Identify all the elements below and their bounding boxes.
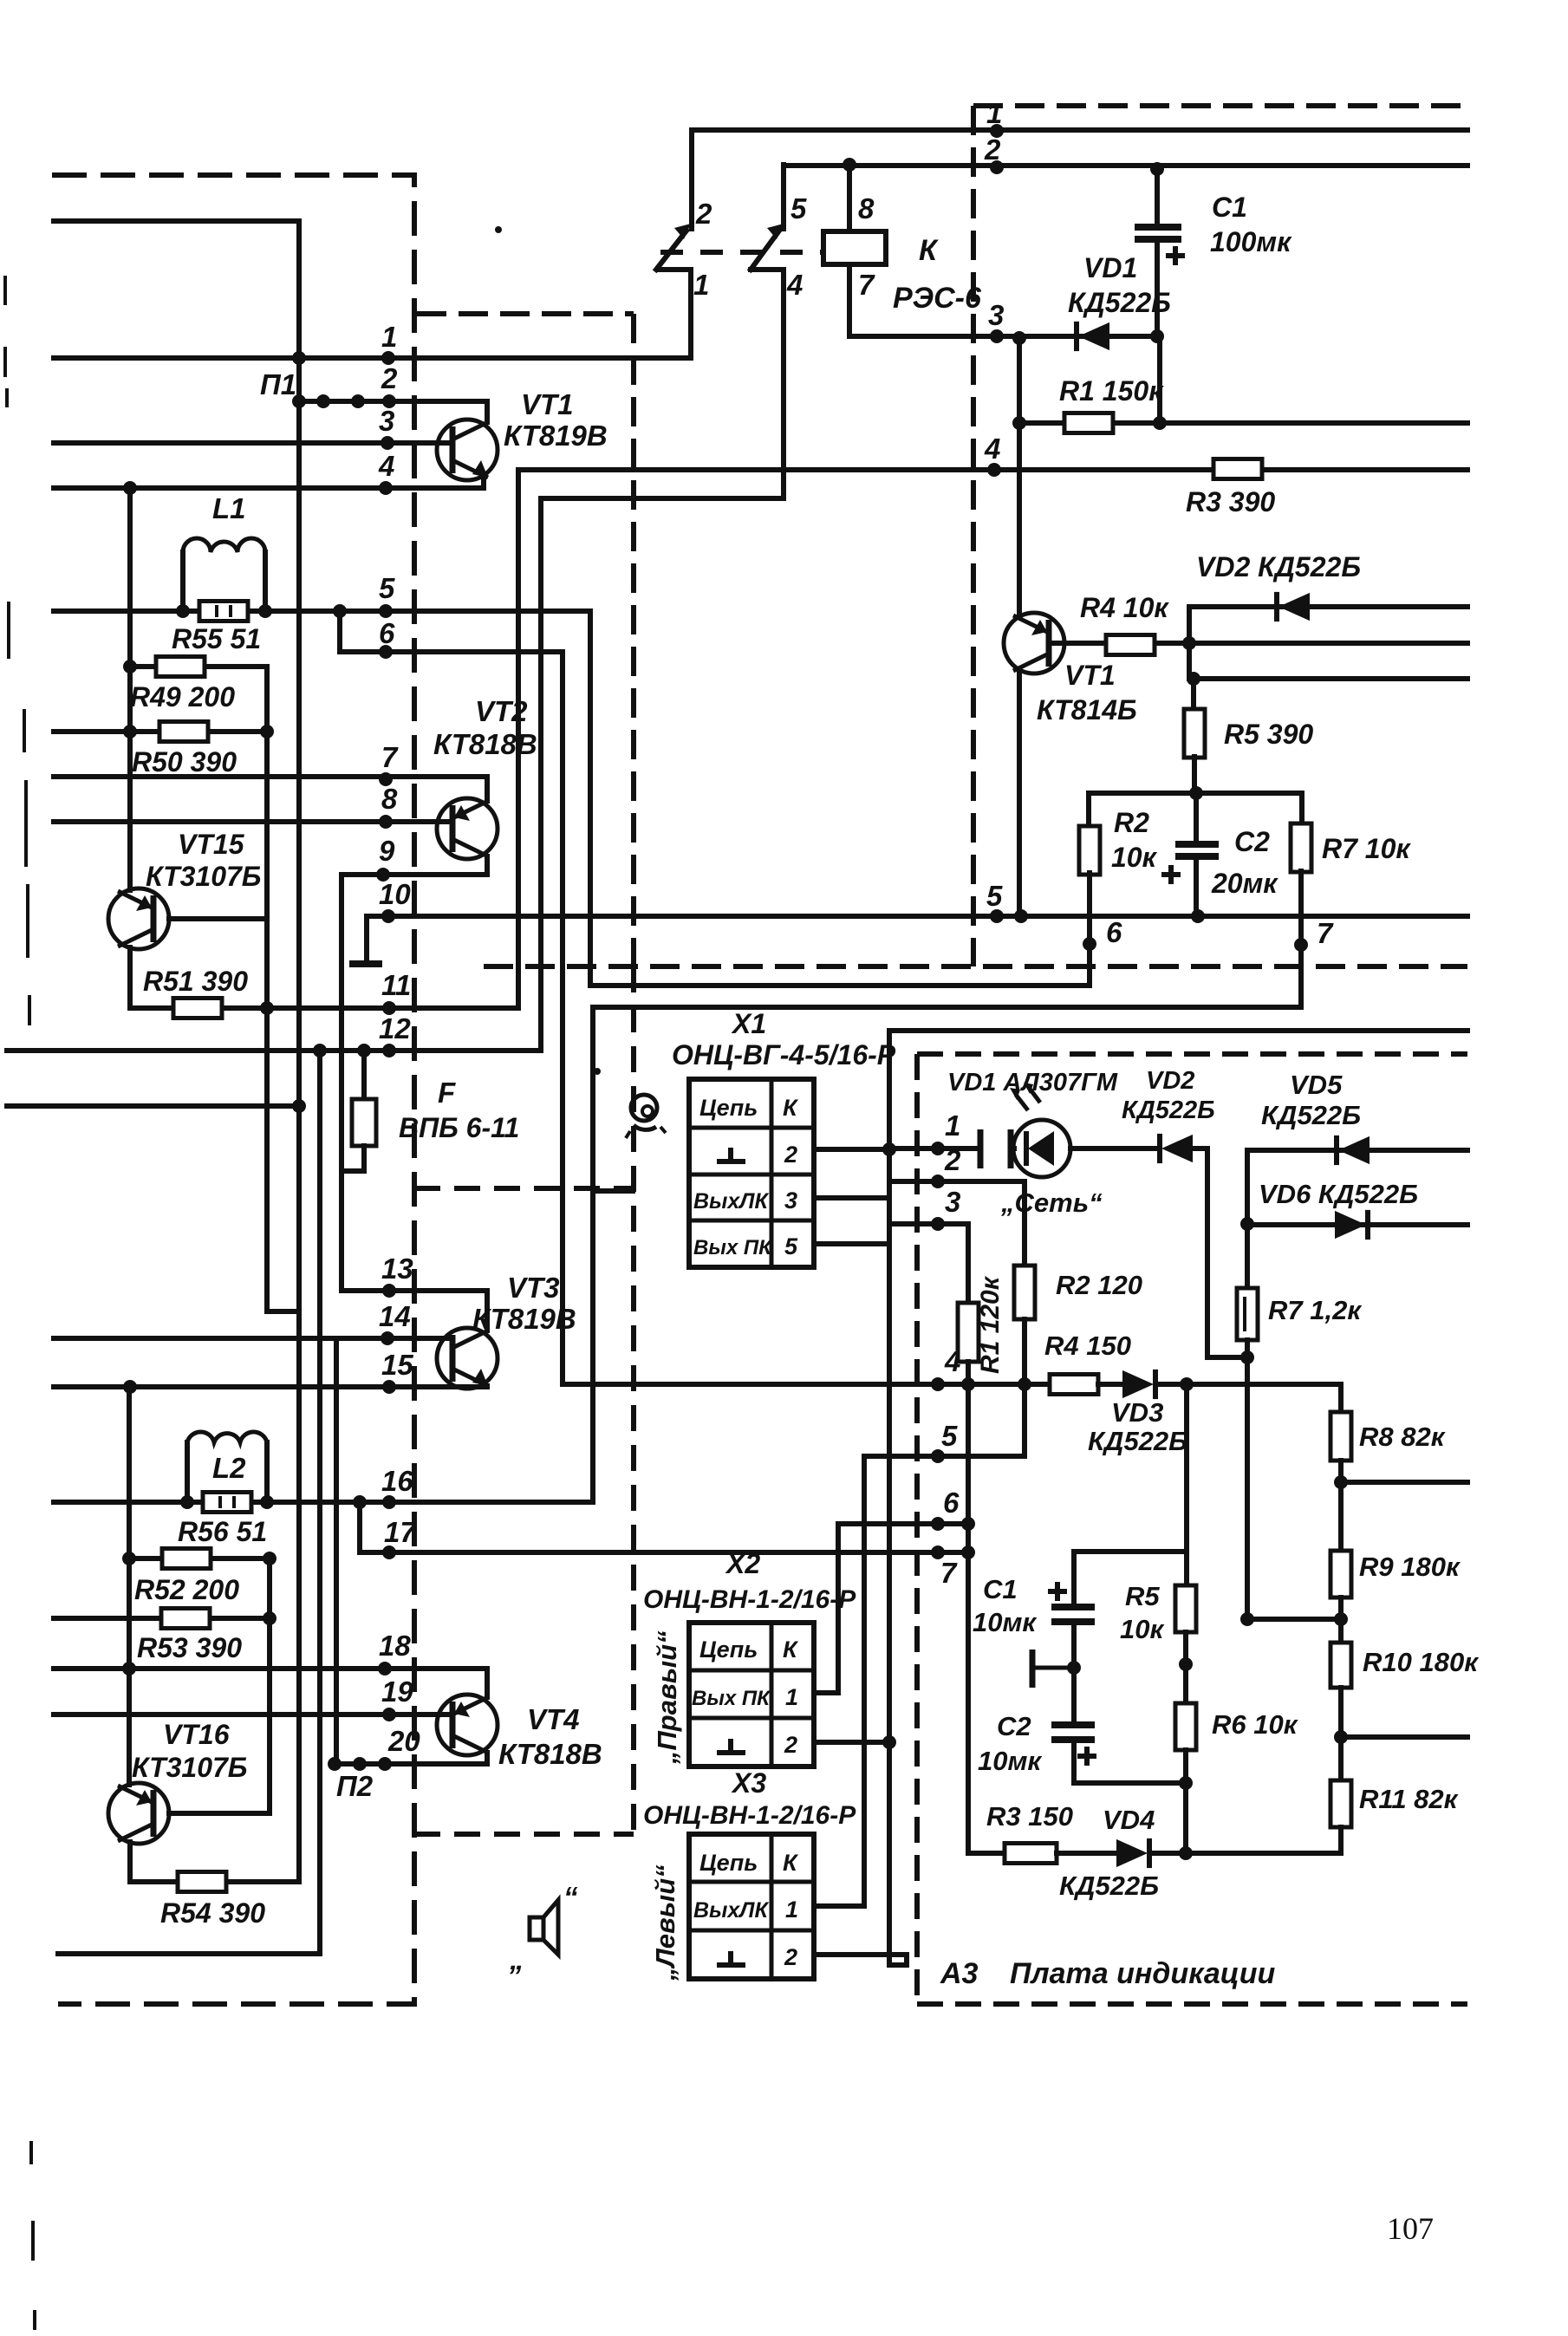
transistor VT3 KT819V	[437, 1328, 498, 1389]
svg-text:14: 14	[379, 1300, 411, 1332]
node pin 9	[376, 868, 390, 882]
svg-text:С2: С2	[1234, 826, 1270, 857]
svg-text:2: 2	[381, 362, 398, 394]
svg-text:15: 15	[381, 1349, 413, 1381]
node R49 left junction	[123, 660, 137, 673]
node R5-R6 junction	[1179, 1657, 1193, 1671]
wire X1 pin3 to bus	[814, 1195, 889, 1201]
svg-text:5: 5	[379, 572, 395, 604]
svg-text:РЭС-6: РЭС-6	[893, 282, 982, 315]
node R7 bottom junction	[1240, 1350, 1254, 1364]
svg-text:R52 200: R52 200	[134, 1574, 239, 1605]
svg-text:19: 19	[381, 1676, 413, 1708]
svg-text:R1 120к: R1 120к	[976, 1275, 1005, 1374]
node pin6 R1 junction	[961, 1517, 975, 1531]
svg-text:R8 82к: R8 82к	[1359, 1422, 1446, 1452]
node pin 20 dots	[328, 1757, 342, 1771]
shield symbol	[631, 1095, 657, 1121]
svg-text:К: К	[783, 1095, 799, 1121]
svg-text:R5: R5	[1125, 1581, 1160, 1611]
wire X2 link down	[814, 1524, 838, 1693]
svg-text:R50 390: R50 390	[132, 746, 237, 778]
node R51 right junction	[260, 1001, 274, 1015]
wire R9 junction to R7 column	[1247, 1617, 1341, 1622]
svg-text:R55 51: R55 51	[172, 623, 261, 654]
svg-text:1: 1	[785, 1897, 798, 1923]
svg-text:КД522Б: КД522Б	[1261, 1100, 1361, 1130]
svg-text:12: 12	[379, 1012, 411, 1044]
svg-text:VD6 КД522Б: VD6 КД522Б	[1259, 1179, 1418, 1209]
svg-text:R54 390: R54 390	[160, 1897, 265, 1929]
wire pin1 row	[54, 355, 691, 361]
svg-text:R7 1,2к: R7 1,2к	[1268, 1295, 1362, 1325]
wire contact2 bottom lead to pin4 line	[751, 270, 784, 498]
wire pin6 to lower rail	[590, 983, 1090, 988]
resistor R2 10k (A2)	[1086, 793, 1091, 827]
svg-text:VD5: VD5	[1290, 1070, 1343, 1100]
node A3 pin 5	[931, 1449, 945, 1463]
svg-text:Х2: Х2	[725, 1548, 760, 1579]
svg-text:Цепь: Цепь	[699, 1850, 758, 1876]
node A3 pin 3	[931, 1217, 945, 1231]
svg-text:КТ818В: КТ818В	[433, 728, 537, 760]
svg-text:„Левый“: „Левый“	[650, 1864, 680, 1981]
ground bar pin10	[349, 960, 382, 967]
svg-text:КТ819В: КТ819В	[504, 420, 608, 452]
connector X1 table	[689, 1079, 814, 1267]
node pin 8	[379, 815, 393, 829]
svg-text:ОНЦ-ВН-1-2/16-Р: ОНЦ-ВН-1-2/16-Р	[643, 1585, 856, 1614]
wire relay to A2 pin3 / VD1 line	[849, 334, 1157, 339]
wire left rail y1276	[7, 1103, 299, 1109]
node pin 1	[381, 351, 395, 365]
wire contact1 top lead	[689, 130, 694, 229]
node pin 6	[379, 645, 393, 659]
resistor R7 1.2k (A3)	[1245, 1224, 1250, 1289]
svg-text:5: 5	[941, 1420, 958, 1452]
node A2 pin 6	[1083, 937, 1096, 951]
svg-text:3: 3	[945, 1186, 960, 1218]
node R1 left junction	[1012, 416, 1026, 430]
svg-text:Цепь: Цепь	[699, 1095, 758, 1121]
svg-text:3: 3	[784, 1188, 797, 1214]
svg-text:R4 10к: R4 10к	[1080, 592, 1169, 623]
wire A3 pin3 to R1	[889, 1224, 968, 1304]
svg-text:А3: А3	[940, 1957, 979, 1990]
svg-text:VT15: VT15	[178, 829, 245, 860]
svg-text:R53 390: R53 390	[137, 1632, 242, 1663]
svg-text:5: 5	[784, 1233, 798, 1259]
node pin 16	[382, 1495, 396, 1509]
wire VT1 collector bus down	[541, 498, 784, 1051]
wire C1 bottom to R1 line	[1157, 336, 1162, 423]
wire pin19 row VT4 base	[54, 1712, 448, 1717]
svg-text:2: 2	[944, 1144, 961, 1176]
svg-text:2: 2	[984, 133, 1001, 166]
wire pin10 chassis stub	[364, 916, 369, 962]
resistor R10 180k	[1331, 1643, 1351, 1688]
svg-text:7: 7	[1317, 917, 1334, 949]
mech link dashed y1371	[414, 1186, 634, 1191]
svg-text:6: 6	[379, 617, 395, 649]
node pin7 junction	[961, 1545, 975, 1559]
mech link dashed y2116	[414, 1832, 634, 1837]
wire pin3 row VT1 base	[54, 440, 448, 446]
node pin 5	[379, 604, 393, 618]
svg-text:1: 1	[785, 1684, 798, 1710]
svg-text:Плата индикации: Плата индикации	[1010, 1957, 1275, 1990]
diode VD2 KD522B (A2)	[1278, 593, 1310, 621]
node A2 pin 2	[990, 160, 1004, 174]
wire pin4 feed line	[563, 1382, 1050, 1387]
wire A3 pin5 down to X3	[862, 1456, 867, 1906]
wire R2-C2-R7 top rail	[1089, 791, 1302, 796]
wire VT2 emitter bus down	[516, 470, 521, 1008]
svg-text:R3 150: R3 150	[986, 1801, 1073, 1832]
inductor L2	[185, 1442, 190, 1502]
node R5 top junction	[1187, 672, 1200, 686]
resistor R6 10k (A3)	[1175, 1703, 1196, 1750]
svg-text:VD4: VD4	[1103, 1805, 1155, 1835]
wire pin9 jog to VT2 emitter	[342, 872, 487, 877]
wire A3 pin1 LED line	[889, 1146, 980, 1151]
svg-text:20мк: 20мк	[1211, 868, 1278, 899]
node R10 bottom junction	[1334, 1730, 1348, 1744]
node VD1 anode junction	[1012, 331, 1026, 345]
svg-text:К: К	[783, 1637, 799, 1663]
wire pin15 row VT3 emitter	[54, 1384, 487, 1389]
svg-text:R2 120: R2 120	[1056, 1270, 1142, 1300]
svg-text:„Правый“: „Правый“	[652, 1630, 682, 1765]
diode VD6 KD522B line	[1247, 1222, 1467, 1227]
node pin 2 dots	[292, 394, 306, 408]
node pin 18	[378, 1662, 392, 1676]
svg-text:КТ3107Б: КТ3107Б	[132, 1752, 247, 1783]
relay K RES-6 coil	[847, 165, 852, 231]
wire X2 pin2 to bus	[814, 1740, 889, 1745]
switch contact 1-2 arm	[656, 231, 686, 270]
mechanical link dashed	[660, 250, 822, 255]
svg-text:R9 180к: R9 180к	[1359, 1552, 1461, 1582]
inductor L1	[180, 552, 185, 611]
node junction x150 y563	[123, 481, 137, 495]
node C2 junction (A3)	[1179, 1776, 1193, 1790]
wire LED to VD2	[1070, 1146, 1160, 1151]
svg-text:13: 13	[381, 1253, 413, 1285]
svg-text:107: 107	[1387, 2211, 1434, 2246]
node C1-C2 junction	[1067, 1661, 1081, 1675]
svg-text:8: 8	[858, 192, 875, 224]
svg-text:11: 11	[381, 969, 411, 1001]
wire R8 junction line right	[1341, 1480, 1467, 1485]
node VD1-C1 junction	[1150, 329, 1164, 343]
diode VD5 KD522B	[1338, 1136, 1370, 1164]
node VD3 output junction	[1180, 1377, 1194, 1391]
node A2 pin 4	[987, 463, 1001, 477]
node pin 4	[379, 481, 393, 495]
svg-text:VT3: VT3	[507, 1272, 560, 1304]
svg-text:R49 200: R49 200	[130, 681, 235, 713]
svg-text:1: 1	[945, 1109, 960, 1142]
svg-text:“: “	[563, 1881, 578, 1913]
resistor R2 120 (A3)	[1014, 1266, 1035, 1319]
wire A3 pin2 to R2	[889, 1181, 1025, 1266]
svg-text:К: К	[783, 1850, 799, 1876]
svg-text:Х3: Х3	[731, 1767, 766, 1799]
svg-text:R4 150: R4 150	[1044, 1331, 1131, 1361]
svg-text:КД522Б: КД522Б	[1088, 1426, 1187, 1456]
node A3 pin 1	[931, 1142, 945, 1155]
svg-text:10к: 10к	[1120, 1614, 1164, 1644]
svg-text:1: 1	[381, 321, 397, 353]
wire VD2 out to R7 node	[1193, 1148, 1247, 1357]
resistor R9 180k	[1338, 1482, 1344, 1551]
node pin 19	[382, 1708, 396, 1721]
board A1 dashed border	[52, 175, 414, 2004]
resistor R52 200	[129, 1558, 270, 1813]
wire A3 pin6 row	[838, 1521, 968, 1526]
wire jog pin5 to pin6	[340, 611, 563, 652]
node A2 pin 5	[990, 909, 1004, 923]
svg-text:VD2: VD2	[1146, 1067, 1194, 1095]
wire second bus to A2 pin2	[784, 163, 1467, 168]
wire pin18 row VT4 collector	[54, 1666, 487, 1671]
node VD6 junction	[1240, 1217, 1254, 1231]
svg-text:16: 16	[381, 1465, 413, 1497]
svg-text:1: 1	[693, 269, 709, 301]
wire R11 bottom link	[1247, 1851, 1341, 1856]
svg-text:7: 7	[858, 269, 875, 301]
capacitor C2 10mk (A3)	[1051, 1721, 1095, 1728]
wire pin8 row VT2 base	[54, 819, 448, 824]
board A2 dashed border	[973, 103, 1467, 108]
svg-text:ВыхЛК: ВыхЛК	[693, 1898, 769, 1923]
resistor R4 150 (A3)	[1050, 1375, 1098, 1395]
wire contact1 bottom lead	[658, 270, 691, 358]
node R9-R10 junction link	[1240, 1612, 1254, 1626]
wire mid rail to bottom	[317, 1051, 322, 1954]
speaker symbol right channel	[530, 1917, 543, 1940]
svg-text:R3 390: R3 390	[1186, 486, 1275, 517]
transistor VT1 KT814B (A2)	[1017, 423, 1022, 617]
svg-text:Вых ПК: Вых ПК	[692, 1687, 771, 1710]
node pin 17	[382, 1545, 396, 1559]
svg-text:100мк: 100мк	[1210, 226, 1292, 257]
wire R5 branch line	[1189, 676, 1467, 681]
node A2 pin 1	[990, 124, 1004, 138]
svg-text:КТ814Б: КТ814Б	[1037, 694, 1137, 726]
resistor R50 390	[54, 729, 267, 734]
node A3 pin 2	[931, 1175, 945, 1188]
node pin 12	[382, 1044, 396, 1057]
node relay top junction	[843, 158, 856, 172]
wire bottom-left rail	[58, 1951, 320, 1956]
svg-text:VD2 КД522Б: VD2 КД522Б	[1196, 551, 1361, 582]
svg-text:ОНЦ-ВГ-4-5/16-Р: ОНЦ-ВГ-4-5/16-Р	[672, 1039, 896, 1070]
svg-text:8: 8	[381, 783, 398, 815]
svg-text:10к: 10к	[1111, 842, 1158, 873]
wire top-left bus	[54, 221, 299, 1882]
svg-text:ВыхЛК: ВыхЛК	[693, 1189, 769, 1214]
svg-text:R51 390: R51 390	[143, 966, 248, 997]
left margin scan marks	[3, 276, 7, 305]
speck artifacts	[495, 226, 502, 233]
capacitor C1 100mk	[1155, 169, 1160, 227]
resistor R3 390	[518, 467, 1467, 472]
resistor R3 150 (A3)	[968, 1851, 1005, 1856]
node jog 5-6	[333, 604, 347, 618]
wire VD5 branch	[1247, 1148, 1467, 1153]
svg-text:5: 5	[791, 192, 807, 224]
node A3 pin 7	[931, 1545, 945, 1559]
wire pin4 row VT1 emitter	[54, 485, 484, 491]
node fuse junctions	[313, 1044, 327, 1057]
wire pin20 link down	[334, 1338, 339, 1764]
wire pin9 down-route	[339, 875, 344, 1291]
svg-text:6: 6	[943, 1487, 960, 1519]
svg-text:КТ3107Б: КТ3107Б	[146, 861, 261, 892]
svg-text:VD1: VD1	[1083, 252, 1137, 283]
resistor R56 51	[54, 1500, 593, 1505]
node R5 bottom junction	[1189, 786, 1203, 800]
wire rail down to X-connector region	[590, 1007, 595, 1502]
svg-text:С1: С1	[983, 1574, 1018, 1604]
svg-text:ВПБ 6-11: ВПБ 6-11	[399, 1112, 519, 1143]
transistor VT15 KT3107B	[127, 488, 133, 890]
svg-text:7: 7	[940, 1557, 958, 1589]
node R2 bottom junction	[1018, 1377, 1031, 1391]
wire pin7 row VT2 collector	[54, 774, 487, 779]
wire VD1 junction down to R1	[1017, 338, 1022, 423]
node A2 pin 3	[990, 329, 1004, 343]
node C2 bottom junction	[1191, 909, 1205, 923]
node R9 bottom junction	[1334, 1612, 1348, 1626]
node R1 bottom junction	[961, 1377, 975, 1391]
resistor R55 51	[54, 608, 590, 614]
svg-text:2: 2	[695, 198, 712, 230]
svg-text:10: 10	[379, 878, 411, 910]
wire pin6 bus down	[560, 652, 565, 1384]
svg-text:4: 4	[786, 269, 803, 301]
resistor R1 120k (A3)	[958, 1303, 979, 1362]
node A3 pin 4	[931, 1377, 945, 1391]
svg-text:4: 4	[378, 450, 394, 482]
node R1 right junction	[1153, 416, 1167, 430]
svg-text:1: 1	[986, 97, 1002, 129]
svg-text:R6 10к: R6 10к	[1212, 1709, 1298, 1740]
svg-text:R56 51: R56 51	[178, 1516, 267, 1547]
svg-text:R11 82к: R11 82к	[1359, 1784, 1459, 1814]
svg-text:18: 18	[379, 1630, 411, 1662]
node L1 terminals	[176, 604, 190, 618]
node L2 terminals	[180, 1495, 194, 1509]
fuse F VPB 6-11	[361, 1051, 367, 1099]
node VT1 emitter junction	[1014, 909, 1028, 923]
wire X1 pin5 to bus	[814, 1241, 889, 1246]
svg-text:7: 7	[381, 741, 399, 773]
svg-text:4: 4	[944, 1345, 960, 1377]
svg-text:КТ819В: КТ819В	[472, 1303, 576, 1335]
resistor R5 10k (A3)	[1175, 1585, 1196, 1632]
svg-text:Вых ПК: Вых ПК	[693, 1236, 773, 1259]
LED VD1 AL307GM	[1013, 1120, 1070, 1177]
svg-text:R1 150к: R1 150к	[1059, 375, 1164, 407]
node junction x345 y1276	[292, 1099, 306, 1113]
node junction x149 y1925	[122, 1662, 136, 1676]
node pin 14	[381, 1331, 394, 1345]
resistor R1 150k	[1019, 420, 1467, 426]
transistor VT16 KT3107B	[127, 1387, 132, 1785]
wire jog pin16 to pin17 row	[360, 1502, 968, 1552]
transistor VT1 KT819V	[437, 420, 498, 480]
wire A3 pin5 row	[864, 1454, 1025, 1459]
wire VD5 to VD6 junction	[1245, 1150, 1250, 1224]
svg-text:R10 180к: R10 180к	[1363, 1647, 1479, 1677]
wire R10 junction line right	[1341, 1734, 1467, 1740]
resistor R8 82k	[1338, 1384, 1344, 1412]
svg-text:5: 5	[986, 880, 1003, 912]
svg-text:17: 17	[384, 1516, 417, 1548]
board A3 dashed border	[917, 1051, 1467, 1057]
svg-text:R5 390: R5 390	[1224, 719, 1313, 750]
resistor R5 390	[1191, 679, 1196, 710]
node pin 3	[381, 436, 394, 450]
svg-text:VT1: VT1	[521, 388, 574, 420]
svg-text:П2: П2	[336, 1770, 374, 1802]
wire pin7 to long rail	[593, 1005, 1301, 1010]
svg-text:П1: П1	[260, 368, 296, 400]
svg-text:VD1 АЛ307ГМ: VD1 АЛ307ГМ	[947, 1069, 1118, 1096]
node R52 left junction	[122, 1552, 136, 1565]
svg-text:3: 3	[988, 299, 1004, 331]
wire X1 pin2 to bus	[814, 1147, 889, 1152]
svg-text:F: F	[438, 1077, 456, 1109]
svg-text:VT16: VT16	[163, 1719, 230, 1750]
diode VD4 KD522B	[1116, 1839, 1148, 1867]
svg-text:КД522Б: КД522Б	[1122, 1096, 1215, 1124]
node VD4 output junction	[1179, 1846, 1193, 1860]
svg-text:Х1: Х1	[731, 1008, 766, 1039]
svg-text:10мк: 10мк	[973, 1607, 1037, 1637]
wire pin2 row to VT1 collector	[299, 399, 487, 404]
node R53 junctions	[263, 1611, 277, 1625]
node C1 top junction	[1150, 162, 1164, 176]
wire pin13 row VT3 collector	[342, 1288, 487, 1293]
svg-text:С1: С1	[1212, 192, 1247, 223]
connector X3 table	[689, 1834, 814, 1979]
wire pin12 long row	[7, 1048, 541, 1053]
wire ground bus box	[889, 1028, 1467, 1033]
resistor R49 200	[130, 667, 299, 1311]
svg-text:„Сеть“: „Сеть“	[1000, 1188, 1103, 1218]
svg-text:10мк: 10мк	[978, 1746, 1042, 1776]
svg-text:2: 2	[784, 1944, 797, 1970]
resistor R11 82k	[1331, 1780, 1351, 1827]
resistor R51 390	[130, 1005, 518, 1011]
svg-text:КТ818В: КТ818В	[498, 1738, 602, 1770]
node X2 pin2 bus junction	[882, 1735, 896, 1749]
capacitor C2 20mk (A2)	[1194, 793, 1199, 844]
wire VD2 branch	[1187, 607, 1192, 679]
wire pin5 long bus	[367, 914, 1467, 919]
wire contact2 top lead	[781, 165, 786, 229]
node R4 output junction	[1182, 636, 1196, 650]
svg-text:R7 10к: R7 10к	[1322, 833, 1411, 864]
board A2 upper-left dashed border	[417, 311, 634, 316]
svg-text:2: 2	[784, 1732, 797, 1758]
wire pin14 row VT3 base	[54, 1336, 448, 1341]
svg-text:Цепь: Цепь	[699, 1637, 758, 1663]
